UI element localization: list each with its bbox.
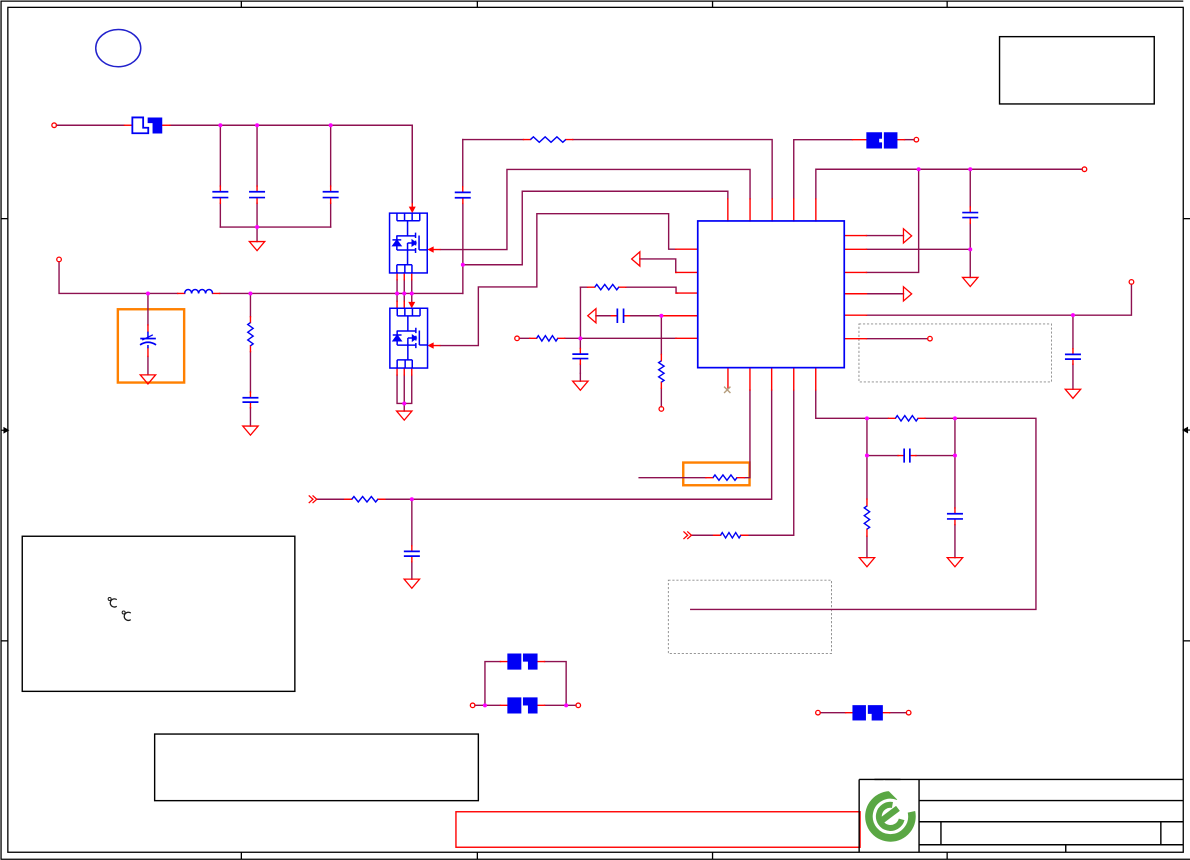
wire C7 branch	[411, 499, 413, 545]
capacitor C4 boot	[455, 192, 471, 197]
temperature text 1	[108, 598, 117, 608]
orange highlight box 2 (around R inside)	[683, 463, 749, 486]
stub C3	[330, 186, 332, 203]
junction cap ground rail	[255, 225, 259, 229]
resistor R-B	[595, 284, 619, 289]
terminal circle VIN	[52, 123, 57, 128]
junction R5/C10	[1071, 313, 1075, 317]
stubs IC right pins	[844, 236, 866, 339]
capacitor C11	[947, 514, 963, 519]
no-connect X on IC pin B1	[724, 387, 730, 393]
stub F1 right	[163, 124, 170, 126]
stub C4 boot cap	[462, 187, 464, 204]
ground G2	[140, 375, 155, 384]
junction SW sense	[461, 263, 465, 267]
resistor R-D	[352, 497, 378, 502]
orange highlight box 1 (around C5)	[118, 309, 184, 382]
wire IC VCC pin to fuse F4	[794, 140, 853, 199]
resistor R-V3 (vertical)	[864, 506, 869, 529]
capacitor C2	[249, 192, 265, 198]
port P4 input arrow	[588, 309, 596, 323]
wire R-G right to corner and into dashed box 2	[691, 418, 1036, 609]
junction VREG/C9	[968, 167, 972, 171]
zone tick right 1	[1183, 218, 1190, 220]
junction comp left mid	[865, 454, 869, 458]
wire C5 to ground G2	[147, 356, 149, 374]
zone tick bottom 3	[712, 852, 714, 859]
junction C9/R2 row	[968, 247, 972, 251]
wire IC R1 to port P1	[866, 235, 903, 237]
wire F1 to C1/C2/C3 rail and down to Q1	[170, 125, 412, 203]
fuse F3 (bottom of parallel pair)	[507, 697, 537, 713]
wire left terminal down	[59, 262, 178, 294]
wire inductor L1 to SW rail	[220, 292, 463, 294]
stub fuse F3	[500, 704, 544, 706]
notes box 2	[155, 734, 479, 801]
wire C1 bottom	[219, 203, 221, 227]
capacitor C13 (horizontal)	[904, 448, 910, 462]
terminal circle fuse pair right	[576, 703, 581, 708]
TITLE BLOCK	[859, 779, 1183, 852]
terminal circle L5 row	[515, 336, 520, 341]
wire R-B row to IC L3	[580, 287, 677, 293]
dashed option box 2	[668, 580, 831, 653]
RED SYMBOLS	[52, 123, 1134, 715]
red warning box bottom	[456, 812, 860, 848]
junction VIN/C3	[329, 123, 333, 127]
port P1 output arrow	[903, 229, 911, 243]
junction FB/R-V2	[659, 314, 663, 318]
stub C2	[256, 186, 258, 203]
red filled arrows at MOSFET pins	[408, 203, 440, 349]
resistor R-F	[721, 533, 741, 538]
resistor R-V2 (vertical)	[659, 361, 664, 382]
junction SW rail pin2	[402, 291, 406, 295]
wire C1 top	[219, 125, 221, 186]
ground G6	[404, 579, 419, 588]
stub R-V1	[249, 317, 251, 352]
wire C3 top	[330, 125, 332, 186]
wire single fuse F5 row	[820, 712, 906, 714]
junction EN/C7	[410, 497, 414, 501]
wire C2 bottom	[256, 203, 258, 227]
fuse F5	[852, 705, 882, 720]
wire feedback vertical through C8	[579, 287, 581, 373]
stub F1 left	[124, 124, 132, 126]
port P3 input arrow	[632, 252, 640, 266]
wire port P3 to IC L2	[640, 259, 677, 273]
stub R-A	[523, 139, 572, 141]
junction comp right top	[953, 416, 957, 420]
fuse F1 left outline part	[132, 117, 148, 133]
arrow into Q2 drain	[411, 301, 413, 302]
wire C5 tap	[147, 293, 149, 325]
terminal circle F5 left	[816, 710, 821, 715]
junction comp right mid	[953, 454, 957, 458]
IC U1 main controller	[698, 221, 845, 368]
wire C2 top	[256, 125, 258, 186]
wire C4 top to boot row	[462, 140, 464, 187]
wire stem to ground G5	[579, 373, 581, 381]
wire C10 to ground G10	[1072, 364, 1074, 389]
wire IC B5 to compensation network	[816, 390, 889, 418]
MOSFET block Q2	[390, 308, 428, 368]
wire VIN input to fuse F1	[56, 124, 124, 126]
arrow into Q1 gate	[433, 249, 440, 251]
stub R-D	[345, 498, 385, 500]
capacitor C9	[962, 213, 978, 218]
center arrow left edge	[1, 428, 8, 433]
fuse F1 right filled part	[148, 117, 163, 133]
junction SW rail pin1	[395, 291, 399, 295]
wire C10 branch	[1072, 315, 1074, 349]
wire comp left vertical	[866, 418, 868, 499]
capacitor C6	[242, 398, 258, 402]
junction VOUT/R-V1	[248, 291, 252, 295]
wire P6 to R-F	[692, 534, 714, 536]
terminal circle VREG right	[1082, 167, 1087, 172]
ground G5	[573, 381, 588, 390]
company logo (green)	[869, 781, 912, 838]
stub C5	[147, 325, 149, 357]
terminal circle F5 right	[906, 710, 911, 715]
fuse F2 (top of parallel pair)	[507, 653, 537, 669]
zone tick top 1	[240, 1, 242, 7]
port P6 double chevron	[683, 531, 691, 539]
stub R-F	[714, 534, 748, 536]
wire Q2 source pins to ground rail	[397, 375, 412, 403]
port P5 double chevron	[309, 495, 317, 503]
junction SW rail pin3	[410, 291, 414, 295]
wire L5 row from terminal through R-C	[519, 337, 676, 339]
stub fuse F2	[500, 661, 544, 663]
junction fuse pair right	[564, 703, 568, 707]
capacitor C5 curved plate	[140, 342, 156, 345]
blue ellipse top-left	[96, 30, 141, 67]
wire SW node up through boot cap C4	[462, 203, 464, 293]
wire C9 bottom to R2 row junction and ground G7	[969, 223, 971, 277]
capacitor C1	[212, 192, 228, 198]
zone tick bottom 1	[240, 852, 242, 859]
stubs Q2 bottom pins	[397, 368, 412, 375]
resistor R-V1 (vertical)	[248, 323, 253, 346]
center arrow right edge	[1183, 428, 1190, 433]
zone tick bottom 2	[476, 852, 478, 859]
dashed option box 1	[859, 324, 1051, 382]
resistor R-A	[530, 137, 565, 142]
zone tick top 4	[946, 1, 948, 7]
junction comp left top	[865, 416, 869, 420]
inductor L1	[185, 289, 213, 293]
ground G9	[947, 558, 962, 567]
wire Q1 gate to IC HDRV	[440, 169, 750, 249]
wire R-V1 to C6	[249, 352, 251, 392]
temperature text 2	[122, 611, 131, 621]
wire comp mid row through C13	[867, 455, 955, 457]
wire C9 branch	[969, 169, 971, 207]
notes box 3 top-right	[1000, 37, 1155, 104]
terminal circle VOUT-left	[57, 257, 62, 262]
junction VOUT/C5	[146, 291, 150, 295]
stub L1 inductor	[178, 292, 220, 294]
junction FB/C8	[578, 336, 582, 340]
stub C12	[611, 315, 629, 317]
wire stem to ground G1	[256, 227, 258, 242]
zone tick left 1	[1, 218, 8, 220]
ground G4	[397, 411, 412, 420]
stubs IC top pins	[728, 199, 816, 221]
stub C11	[954, 508, 956, 525]
capacitor C8	[572, 354, 588, 358]
stub R-B	[588, 286, 626, 288]
resistor R-C	[537, 336, 558, 341]
stub R-C	[530, 337, 565, 339]
arrow into Q1 drain	[411, 203, 413, 208]
wire comp right vertical	[954, 418, 956, 508]
wire P5 to R-D	[317, 498, 345, 500]
BLUE COMPONENTS	[140, 137, 1081, 556]
wire C7 to ground G6	[411, 562, 413, 579]
zone tick top 3	[712, 1, 714, 7]
ground G8	[859, 558, 874, 567]
terminal circle under R-V2	[659, 407, 664, 412]
wire port P4 through C12 to IC L4	[596, 315, 677, 317]
wire parallel fuse loop	[475, 662, 576, 706]
stub R-V3	[866, 499, 868, 536]
junction VIN/C2	[255, 123, 259, 127]
wire C11 to ground G9	[954, 525, 956, 558]
capacitor C12 (horizontal)	[617, 308, 623, 323]
stub C1	[219, 186, 221, 203]
stubs IC bottom pins	[728, 368, 816, 390]
wire R-E left lead	[639, 477, 706, 479]
stub R-G	[888, 417, 925, 419]
wire Q1 source pins to SW rail	[397, 280, 412, 294]
wire C3 bottom	[330, 203, 332, 227]
terminal circle F4 right	[914, 137, 919, 142]
stubs Q2 top side pins	[397, 301, 404, 308]
wire gate2 chain from IC L1	[440, 214, 675, 346]
stub C9	[969, 207, 971, 223]
ground G10	[1065, 389, 1080, 398]
resistor R-G	[895, 416, 918, 421]
junction Q2 source	[402, 401, 406, 405]
repair title block top line	[874, 778, 900, 780]
wire IC R6 to terminal in dashed box	[866, 338, 927, 340]
wire VREG row right	[816, 169, 1082, 199]
junction VIN/C1	[218, 123, 222, 127]
junction VREG branch	[917, 167, 921, 171]
capacitor C5 polarized plate	[140, 338, 156, 340]
wire IC R5 row to right terminal	[866, 284, 1131, 315]
port P2 output arrow	[903, 287, 911, 301]
arrow into Q2 gate	[433, 345, 440, 347]
wire SW sense row	[463, 191, 728, 265]
wire IC R2 row	[866, 248, 970, 250]
wire R-V2 branch	[660, 316, 662, 407]
capacitor C3	[323, 192, 339, 198]
junction fuse pair left	[483, 703, 487, 707]
zone tick left 2	[1, 640, 8, 642]
wire IC R4 to port P2	[866, 293, 903, 295]
zone tick bottom 4	[946, 852, 948, 859]
stub C7	[411, 546, 413, 562]
WIRES (maroon)	[56, 125, 1131, 712]
wire boot row through R-A to IC pin	[463, 140, 772, 199]
capacitor C5 polarity tick	[142, 335, 153, 340]
ground G1	[249, 242, 264, 251]
stub R-E	[706, 477, 745, 479]
resistor R-E	[713, 475, 737, 480]
terminal circle in dashed box	[928, 336, 933, 341]
wire IC B2 down to orange box resistor	[744, 390, 750, 478]
wire F4 to terminal	[904, 139, 914, 141]
stub fuse F5	[846, 712, 890, 714]
wire cap ground rail	[220, 226, 330, 228]
notes box 1	[22, 536, 295, 691]
ground G3	[243, 426, 258, 435]
zone tick top 2	[476, 1, 478, 7]
stub R-V2	[660, 354, 662, 388]
capacitor C7	[404, 551, 420, 556]
stub C10	[1072, 349, 1074, 365]
RED PIN STUBS	[124, 125, 1072, 712]
wire R-V3 to ground G8	[866, 536, 868, 557]
wire Q1 drain feed upper	[411, 125, 413, 203]
fuse F4	[866, 132, 897, 148]
wire Q2 drain pins from SW rail	[397, 293, 412, 301]
wire IC B3 down and left (long FB row)	[385, 390, 772, 499]
terminal circle fuse pair left	[470, 703, 475, 708]
stub C6	[249, 392, 251, 408]
capacitor C10	[1065, 354, 1081, 359]
capacitor C5 lead stubs	[147, 332, 149, 349]
wire IC B4 down to R-F row	[748, 390, 794, 535]
stubs Q1 bottom pins	[397, 273, 412, 280]
stub C8	[579, 348, 581, 364]
zone tick right 2	[1183, 640, 1190, 642]
wire C6 to ground G3	[249, 408, 251, 426]
terminal circle right upper	[1129, 280, 1134, 285]
stubs IC left pins	[662, 249, 697, 338]
wire stem to ground G4	[403, 403, 405, 411]
stub fuse F4	[852, 139, 904, 141]
wire branch down to IC right pin R3	[866, 169, 918, 272]
wire R-V1 tap	[249, 293, 251, 316]
MOSFET block Q1	[390, 213, 428, 273]
stub C13	[898, 455, 916, 457]
ground G7	[963, 277, 978, 286]
